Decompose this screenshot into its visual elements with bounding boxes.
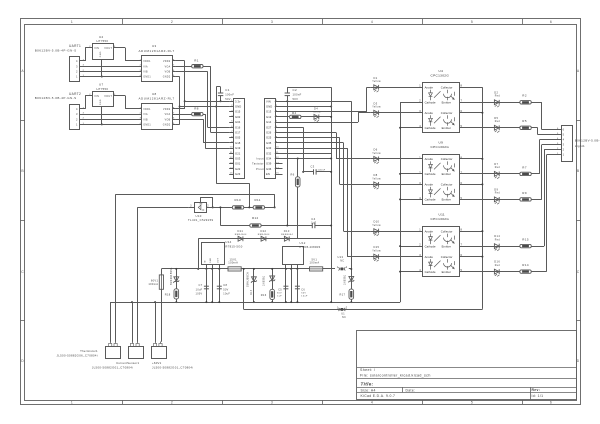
svg-text:1N5081: 1N5081 <box>262 275 265 286</box>
wire C1 top to gnd net <box>220 87 222 93</box>
svg-text:Emitter: Emitter <box>442 126 451 130</box>
svg-text:3: 3 <box>76 112 78 116</box>
title block <box>357 331 577 400</box>
zener + resistor R17 <box>349 276 354 281</box>
wire U3 VOB to G16 <box>176 71 208 73</box>
svg-text:100nF: 100nF <box>318 169 326 171</box>
svg-text:Cathode: Cathode <box>425 126 436 130</box>
svg-text:Emitter: Emitter <box>442 198 451 202</box>
svg-text:Collector: Collector <box>441 255 453 259</box>
wire VOUT to isolator VDD1 <box>117 95 125 97</box>
wire U8 VOB to G18 <box>176 119 204 121</box>
svg-text:D: D <box>21 359 24 363</box>
svg-text:Anode: Anode <box>425 86 434 90</box>
svg-text:D: D <box>577 359 580 363</box>
svg-text:D16: D16 <box>494 260 500 264</box>
optocoupler U4 CPC1302G <box>423 83 460 133</box>
svg-text:Title:: Title: <box>361 382 374 387</box>
wire U3 GND2 down <box>176 76 180 78</box>
svg-text:G22: G22 <box>235 167 241 171</box>
svg-text:VIA: VIA <box>143 113 148 116</box>
svg-text:RER4004: RER4004 <box>281 234 293 236</box>
svg-text:+60V1: +60V1 <box>152 361 162 365</box>
svg-text:K7805-2080R3: K7805-2080R3 <box>300 245 321 249</box>
svg-text:NC: NC <box>340 260 344 263</box>
wire R8 to G19 <box>203 114 205 116</box>
wire U8 VDD2 <box>176 108 185 110</box>
svg-text:1: 1 <box>71 20 73 24</box>
vertical net bus <box>331 87 333 302</box>
svg-text:Cathode: Cathode <box>425 244 436 248</box>
svg-text:JL500-50882G01_C70804i: JL500-50882G01_C70804i <box>152 365 193 369</box>
svg-text:C7: C7 <box>198 283 202 287</box>
svg-text:G15: G15 <box>235 110 241 114</box>
ground drop U14 <box>212 269 214 302</box>
wire C2 top to bus <box>287 87 289 93</box>
LED D7 Red + resistor R7 <box>460 173 520 175</box>
inner sense loop left edge <box>137 207 139 341</box>
svg-text:50V: 50V <box>293 97 299 101</box>
connector module right header <box>265 99 276 179</box>
connector module left header <box>234 99 245 179</box>
svg-text:100V: 100V <box>196 293 203 296</box>
svg-text:VOA: VOA <box>165 65 171 68</box>
vertical VIN drop <box>351 101 353 302</box>
capacitor C1 100nF <box>218 92 223 94</box>
wire VIN feed <box>82 60 85 62</box>
svg-text:SMAJ58CA: SMAJ58CA <box>246 272 249 287</box>
svg-text:GND: GND <box>266 105 272 109</box>
svg-text:Yellow: Yellow <box>372 178 381 180</box>
svg-text:VIN: VIN <box>94 95 99 98</box>
wire G13 to D1 <box>279 111 367 113</box>
svg-text:G17: G17 <box>235 131 241 135</box>
bottom power rail <box>110 302 400 304</box>
svg-text:VDD2: VDD2 <box>163 61 171 63</box>
svg-text:B: B <box>577 169 580 173</box>
svg-text:Yellow: Yellow <box>372 251 381 253</box>
svg-text:G19: G19 <box>235 146 241 150</box>
capacitor C7 10uF 100V <box>206 269 208 302</box>
svg-text:G25: G25 <box>266 136 272 140</box>
wire G33 to D15 <box>279 148 347 150</box>
svg-text:Cathode: Cathode <box>425 270 436 274</box>
svg-text:Thermistor1: Thermistor1 <box>80 349 98 353</box>
wire R6 to D13 row <box>297 187 299 239</box>
svg-text:HT7550: HT7550 <box>97 39 109 43</box>
wire R1 to G17 <box>203 66 211 68</box>
svg-text:100nF: 100nF <box>293 93 302 97</box>
svg-text:R7815-5G0: R7815-5G0 <box>225 244 242 248</box>
svg-text:A: A <box>577 69 580 73</box>
svg-text:12: 12 <box>276 157 280 159</box>
svg-text:Red: Red <box>495 121 501 123</box>
svg-text:KiCad E.D.A. 9.0.7: KiCad E.D.A. 9.0.7 <box>361 394 396 398</box>
rectifier D13 <box>284 236 289 241</box>
svg-text:G12: G12 <box>266 115 272 119</box>
svg-text:GND1: GND1 <box>143 125 151 127</box>
wire G27 to C3 <box>279 127 303 129</box>
svg-text:14: 14 <box>276 168 280 170</box>
svg-text:Yellow: Yellow <box>372 81 381 83</box>
svg-text:D1: D1 <box>374 76 378 80</box>
LED D9 Red + resistor R9 <box>460 199 520 201</box>
svg-text:C4: C4 <box>311 217 315 221</box>
svg-text:RER4004: RER4004 <box>235 234 247 236</box>
svg-text:VOA: VOA <box>165 113 171 116</box>
svg-text:A: A <box>21 69 24 73</box>
svg-text:G21: G21 <box>235 151 241 155</box>
svg-text:Yellow: Yellow <box>372 107 381 109</box>
wire G14 to D3 <box>279 122 358 124</box>
svg-text:Yellow: Yellow <box>372 153 381 155</box>
wire G39 stub <box>279 163 283 165</box>
svg-text:Light1: Light1 <box>575 144 585 148</box>
svg-text:G23: G23 <box>235 172 241 176</box>
svg-text:Emitter: Emitter <box>442 244 451 248</box>
regulator U2 HT7550 <box>93 44 114 60</box>
svg-text:R9: R9 <box>522 191 527 195</box>
LED D14 Red + resistor R15 <box>460 246 520 248</box>
svg-text:CPC1302G: CPC1302G <box>431 145 450 149</box>
svg-text:R5: R5 <box>522 119 527 123</box>
svg-text:1uF: 1uF <box>311 222 316 225</box>
svg-text:15: 15 <box>230 173 234 175</box>
svg-text:VDD1: VDD1 <box>143 61 151 63</box>
svg-text:Red: Red <box>495 265 501 267</box>
svg-text:G14: G14 <box>266 120 272 124</box>
svg-text:Emitter: Emitter <box>442 270 451 274</box>
svg-text:4: 4 <box>371 400 373 404</box>
svg-text:5: 5 <box>471 400 473 404</box>
svg-text:100nF: 100nF <box>225 93 234 97</box>
wire G32 <box>279 153 331 155</box>
svg-text:1: 1 <box>76 123 78 127</box>
svg-text:R12: R12 <box>252 216 259 220</box>
jumper U13 NC <box>339 267 346 270</box>
wire R7 out to pin4 <box>531 173 539 175</box>
connector Light1 B0612BV <box>562 126 573 162</box>
LED D16 Red + resistor R14 <box>460 271 520 273</box>
svg-text:VIN: VIN <box>266 99 271 103</box>
regulator U14 R7815-5G0 <box>202 243 225 265</box>
svg-text:3.3v: 3.3v <box>235 99 241 103</box>
wire R14 out to pin1 <box>531 271 546 273</box>
svg-text:50V: 50V <box>277 292 282 294</box>
svg-text:Yellow: Yellow <box>313 112 321 114</box>
svg-text:B0612BV-5.0B-4P-GN-S: B0612BV-5.0B-4P-GN-S <box>35 96 77 100</box>
svg-text:6: 6 <box>563 128 565 132</box>
svg-text:Tastatur: Tastatur <box>252 163 264 166</box>
svg-text:Collector: Collector <box>441 229 453 233</box>
svg-text:1: 1 <box>563 153 565 157</box>
svg-text:G27: G27 <box>266 125 272 129</box>
svg-text:G13: G13 <box>266 110 272 114</box>
svg-text:GND2: GND2 <box>163 125 171 127</box>
wire R15 out to pin2 <box>531 246 544 248</box>
connector +60V1 <box>152 347 167 359</box>
wire Thermistor pins <box>110 302 112 342</box>
capacitor C6 50V 10uF <box>297 269 299 302</box>
svg-text:GND: GND <box>100 51 102 57</box>
wire <box>82 66 142 68</box>
svg-text:Collector: Collector <box>441 183 453 187</box>
svg-text:Cathode: Cathode <box>425 172 436 176</box>
svg-text:VIA: VIA <box>143 65 148 68</box>
resistor R10 <box>206 207 232 209</box>
svg-text:U9: U9 <box>439 141 444 145</box>
svg-text:R1: R1 <box>194 59 199 63</box>
svg-text:U3: U3 <box>152 44 157 48</box>
wire to R11 output <box>274 194 276 207</box>
top power rail <box>161 268 335 270</box>
wire VIN feed <box>82 108 85 110</box>
svg-text:100mA: 100mA <box>148 282 158 286</box>
capacitor C3 <box>303 171 313 173</box>
svg-text:D13: D13 <box>284 229 290 233</box>
LED D6 Yellow <box>370 158 423 160</box>
svg-text:Collector: Collector <box>441 86 453 90</box>
svg-text:U11: U11 <box>439 213 446 217</box>
outer sense loop left edge <box>115 194 117 302</box>
svg-text:4: 4 <box>76 107 78 111</box>
svg-text:G03: G03 <box>235 157 241 161</box>
zener BZX384B5V1 + resistor R18 <box>176 269 178 302</box>
svg-text:Cathode: Cathode <box>425 198 436 202</box>
wire VOUT to isolator VDD1 <box>117 47 125 49</box>
svg-text:C: C <box>577 270 580 274</box>
LED D2 Red + resistor R2 <box>460 102 520 104</box>
svg-text:D8: D8 <box>374 173 378 177</box>
svg-text:Emitter: Emitter <box>442 101 451 105</box>
svg-text:11: 11 <box>230 152 233 154</box>
svg-text:D6: D6 <box>374 148 378 152</box>
resistor R1 <box>176 66 192 68</box>
svg-text:C5: C5 <box>278 288 282 291</box>
svg-text:100mA: 100mA <box>310 261 320 265</box>
wire <box>82 114 142 116</box>
resistor R12 <box>220 225 250 227</box>
resistor R6 <box>297 159 299 177</box>
wire EN stub <box>279 174 283 176</box>
svg-text:Anode: Anode <box>425 183 434 187</box>
svg-text:G16: G16 <box>235 125 241 129</box>
wire D11 row to top rail <box>198 239 200 269</box>
collector bus corner <box>482 308 484 311</box>
svg-text:CPC1302G: CPC1302G <box>431 73 450 77</box>
svg-text:IN: IN <box>204 260 206 263</box>
svg-text:G01: G01 <box>235 162 241 166</box>
svg-text:G34: G34 <box>266 157 272 161</box>
svg-text:VIB: VIB <box>143 119 148 121</box>
svg-text:D11: D11 <box>238 229 244 233</box>
svg-text:1: 1 <box>76 75 78 79</box>
svg-text:B0612BV-5.0B-4P: B0612BV-5.0B-4P <box>575 139 600 143</box>
svg-text:C: C <box>21 270 24 274</box>
LED D15 Yellow <box>370 256 423 258</box>
svg-text:U13: U13 <box>338 255 344 259</box>
fuse 15V1 100mA <box>228 267 241 271</box>
svg-text:VOUT: VOUT <box>104 95 112 98</box>
svg-text:50V: 50V <box>225 97 231 101</box>
svg-text:Cathode: Cathode <box>425 101 436 105</box>
connector UART2 <box>70 105 80 130</box>
wire G25 to D8 <box>279 137 340 139</box>
collector bus <box>482 87 484 308</box>
svg-text:D4: D4 <box>314 107 318 111</box>
connector UART1 <box>70 57 80 82</box>
ground wire regulator <box>101 59 103 77</box>
svg-text:2: 2 <box>563 148 565 152</box>
svg-text:Red: Red <box>495 239 501 241</box>
fuse 60V1 100mA <box>161 269 163 275</box>
svg-text:G02: G02 <box>235 115 241 119</box>
svg-text:Emitter: Emitter <box>442 172 451 176</box>
optocoupler U9 CPC1302G <box>423 155 460 205</box>
svg-text:R11: R11 <box>255 198 261 202</box>
svg-text:13: 13 <box>230 162 234 164</box>
wire to lower return rail <box>243 269 245 310</box>
svg-text:13: 13 <box>276 162 280 164</box>
svg-text:R18: R18 <box>165 292 171 296</box>
svg-text:Anode: Anode <box>425 229 434 233</box>
wire U3 VDD2 to 3.3V rail <box>176 60 185 62</box>
svg-text:C3: C3 <box>311 164 315 168</box>
svg-text:Anode: Anode <box>425 111 434 115</box>
resistor R11 <box>244 207 253 209</box>
svg-text:VIN: VIN <box>94 47 99 50</box>
svg-text:10uF: 10uF <box>196 288 203 291</box>
svg-text:12: 12 <box>230 157 234 159</box>
shunt regulator U10 TL431 <box>195 203 207 213</box>
capacitor C2 100nF <box>285 92 290 94</box>
svg-text:2: 2 <box>171 20 173 24</box>
TL431 ref loop <box>200 197 202 202</box>
svg-text:D3: D3 <box>374 101 378 105</box>
svg-text:NC: NC <box>342 316 346 319</box>
capacitor C8 50V 10uF <box>219 269 221 302</box>
svg-text:U8: U8 <box>152 92 157 96</box>
wire VIN row <box>279 101 351 103</box>
connector CurrentSensor1 <box>129 347 144 359</box>
svg-text:6: 6 <box>550 20 552 24</box>
svg-text:R17: R17 <box>339 293 345 297</box>
svg-text:Yellow: Yellow <box>372 225 381 227</box>
svg-text:Id: 1/1: Id: 1/1 <box>532 394 544 398</box>
svg-text:1: 1 <box>71 400 73 404</box>
wire G34 to R6 <box>279 158 331 160</box>
svg-text:ADUM1281ARZ-RL7: ADUM1281ARZ-RL7 <box>139 49 175 53</box>
svg-text:G33: G33 <box>266 146 272 150</box>
fuse 5V1 100mA <box>310 267 323 271</box>
svg-text:U4: U4 <box>439 69 444 73</box>
svg-text:File: solarcontroller_kicad.ki: File: solarcontroller_kicad.kicad_sch <box>360 374 431 378</box>
wire U10 pin3 <box>189 207 195 209</box>
svg-text:R16: R16 <box>261 293 267 297</box>
cathode return bus <box>400 102 402 302</box>
wire CurrentSensor pins <box>132 302 134 342</box>
svg-text:D12: D12 <box>261 229 267 233</box>
svg-text:2: 2 <box>76 70 78 74</box>
ground drop U12 <box>291 269 293 302</box>
svg-text:VOUT: VOUT <box>104 47 112 50</box>
regulator U7 HT7550 <box>93 92 114 107</box>
svg-text:C6: C6 <box>301 288 305 291</box>
svg-text:VOB: VOB <box>165 72 171 74</box>
svg-text:EN: EN <box>266 172 270 176</box>
svg-text:3: 3 <box>76 64 78 68</box>
svg-text:10uF: 10uF <box>301 296 308 298</box>
svg-text:60V1: 60V1 <box>151 278 159 282</box>
svg-text:Collector: Collector <box>441 111 453 115</box>
LED D3 Yellow <box>370 112 423 114</box>
svg-text:14: 14 <box>230 168 234 170</box>
svg-text:BZX384B5V1: BZX384B5V1 <box>170 267 173 285</box>
svg-text:B0612BV-5.0B-4P-GN-S: B0612BV-5.0B-4P-GN-S <box>35 48 77 52</box>
wire GND row to bus <box>279 106 331 108</box>
LED D4 Yellow <box>301 116 331 118</box>
svg-text:VDD1: VDD1 <box>143 109 151 111</box>
wire R5 out to pin5 <box>531 127 538 129</box>
svg-text:D2: D2 <box>494 90 498 94</box>
svg-text:JL500-50882G01_C70804i: JL500-50882G01_C70804i <box>92 365 133 369</box>
svg-text:15: 15 <box>276 173 280 175</box>
wire G36 stub <box>279 168 283 170</box>
svg-text:3: 3 <box>271 400 273 404</box>
svg-text:D10: D10 <box>374 220 380 224</box>
svg-text:10: 10 <box>276 147 280 149</box>
svg-text:5: 5 <box>471 20 473 24</box>
svg-text:Red: Red <box>495 193 501 195</box>
svg-text:R2: R2 <box>522 94 527 98</box>
svg-text:G35: G35 <box>266 141 272 145</box>
svg-text:1uF: 1uF <box>277 296 282 298</box>
svg-text:Red: Red <box>495 96 501 98</box>
svg-text:Sheet: /: Sheet: / <box>360 368 375 372</box>
svg-text:3: 3 <box>271 20 273 24</box>
svg-text:50V: 50V <box>223 288 228 291</box>
svg-text:VOB: VOB <box>165 119 171 121</box>
svg-text:6: 6 <box>550 400 552 404</box>
wire U8 GND2 <box>176 124 180 126</box>
wire C2 bottom / divider feed <box>287 96 289 102</box>
isolator U8 ADUM1281ARZ-RL7 <box>142 104 173 130</box>
svg-text:G05: G05 <box>235 136 241 140</box>
svg-text:CurrentSensor1: CurrentSensor1 <box>116 361 139 365</box>
svg-text:G39: G39 <box>266 162 272 166</box>
svg-text:R4: R4 <box>292 111 297 115</box>
svg-text:Anode: Anode <box>425 255 434 259</box>
svg-text:R6: R6 <box>291 172 295 176</box>
wire +60V pins <box>155 302 157 342</box>
svg-text:JL500-50882G06_C70804i: JL500-50882G06_C70804i <box>57 354 98 358</box>
svg-text:3: 3 <box>563 143 565 147</box>
svg-text:D14: D14 <box>494 234 500 238</box>
svg-text:GND: GND <box>100 99 102 105</box>
svg-text:RER4004: RER4004 <box>258 234 270 236</box>
resistor R4 <box>279 116 289 118</box>
svg-text:CPC1302G: CPC1302G <box>431 217 450 221</box>
optocoupler U11 CPC1302G <box>423 227 460 277</box>
svg-text:Collector: Collector <box>441 157 453 161</box>
svg-text:4: 4 <box>563 138 565 142</box>
svg-text:Rev:: Rev: <box>532 388 541 392</box>
svg-text:G36: G36 <box>266 167 272 171</box>
rectifier D11 <box>198 238 331 240</box>
svg-text:50V: 50V <box>301 292 306 294</box>
TVS D17 SMAJ58CA <box>253 269 255 302</box>
connector Thermistor1 <box>106 347 121 359</box>
